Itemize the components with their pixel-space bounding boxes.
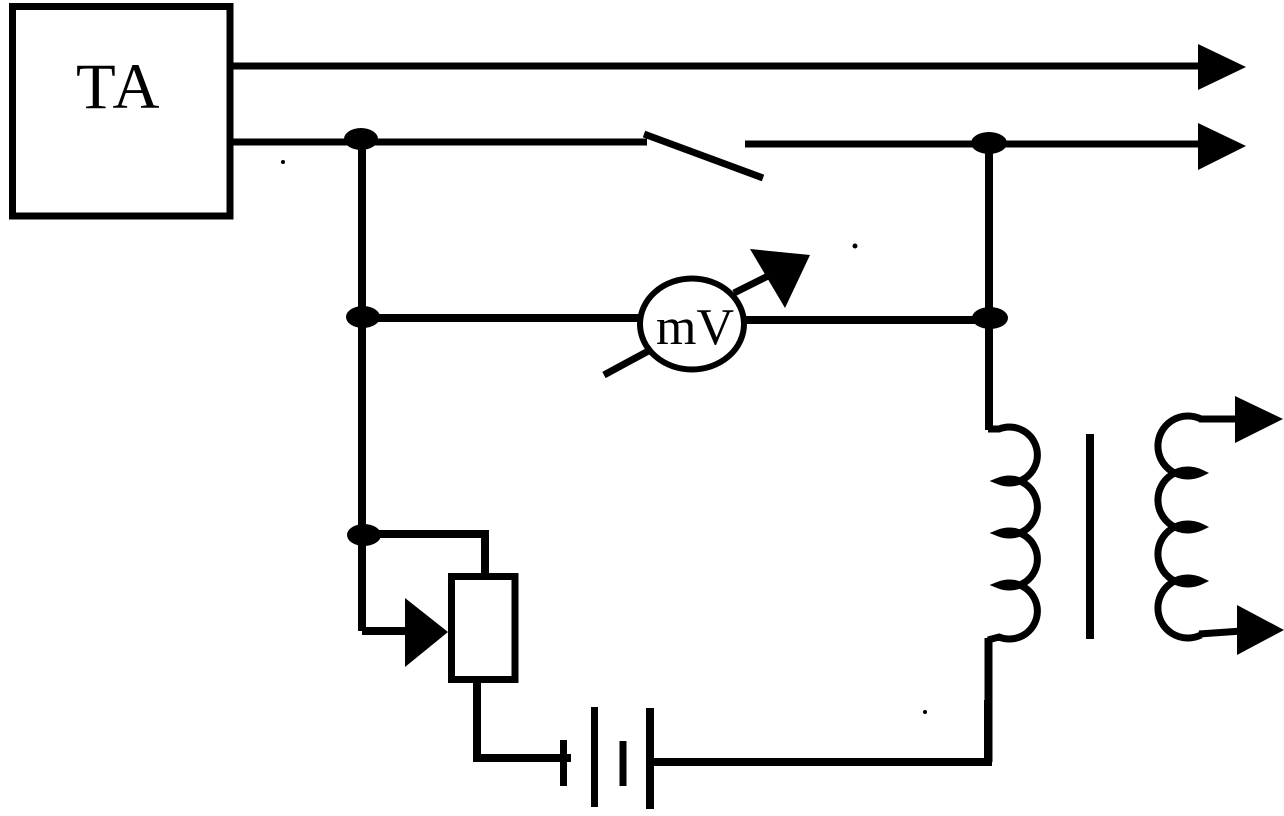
arrowhead: top output <box>1198 44 1246 90</box>
junction dot B <box>346 306 380 328</box>
arrowhead: second line <box>1198 123 1246 170</box>
variable arrow diagonal lower segment <box>604 349 652 375</box>
wire: mV line left segment <box>363 314 644 322</box>
variable arrowhead <box>750 249 810 308</box>
arrowhead: secondary top <box>1235 396 1283 443</box>
speck near TA box <box>281 160 285 164</box>
wire: primary bottom lead <box>985 638 993 762</box>
wire: rheostat top feed <box>364 534 485 576</box>
transformer secondary winding <box>1158 416 1201 638</box>
junction dot A <box>344 128 378 150</box>
battery cell 2 long plate <box>646 708 654 809</box>
battery cell 1 short plate <box>560 740 567 786</box>
svg-text:TA: TA <box>76 51 161 123</box>
rheostat wiper arrowhead <box>405 598 448 667</box>
transformer core <box>1086 434 1094 639</box>
battery cell 1 long plate <box>591 707 598 807</box>
variable arrow diagonal upper segment <box>734 276 768 293</box>
meter mV circle <box>640 279 744 370</box>
rheostat body <box>452 577 516 680</box>
wire: second line right segment <box>745 141 1202 148</box>
speck above right bus <box>853 244 858 249</box>
switch blade <box>644 134 763 178</box>
junction dot C <box>972 307 1008 329</box>
junction dot E <box>347 524 381 546</box>
wire: secondary top lead <box>1199 416 1241 423</box>
transformer primary winding <box>988 427 1037 640</box>
wire: second line left segment <box>230 139 647 146</box>
speck below right bus <box>923 710 927 714</box>
arrowhead: secondary bottom <box>1237 605 1284 655</box>
wire: right vertical bus <box>985 144 993 430</box>
wire: left vertical bus <box>358 139 366 631</box>
block TA <box>13 7 231 217</box>
junction dot D <box>971 132 1007 154</box>
battery cell 2 short plate <box>620 741 627 786</box>
wire: mV line right segment <box>742 316 990 324</box>
wire: top output line <box>230 63 1202 70</box>
svg-text:mV: mV <box>656 299 734 356</box>
wire: rheostat bottom lead <box>477 680 571 758</box>
wire: secondary bottom lead <box>1199 631 1242 634</box>
wire: battery to primary <box>654 700 988 762</box>
wire: wiper feed <box>362 627 406 635</box>
